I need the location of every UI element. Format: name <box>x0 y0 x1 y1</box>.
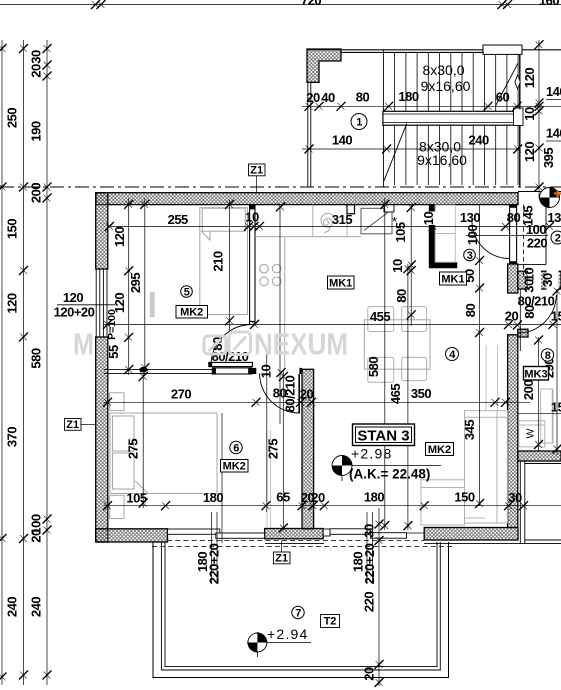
stair dim row 2 <box>302 148 520 150</box>
wall stem between room6 and hall <box>302 369 314 529</box>
dim texts chain B <box>5 108 20 617</box>
room number 4 <box>446 348 459 362</box>
room6 bed <box>110 413 217 494</box>
Z1 box left <box>65 419 97 432</box>
svg-text:8x30,0: 8x30,0 <box>422 62 464 78</box>
STAN 3 title block <box>353 424 415 446</box>
svg-text:30: 30 <box>540 273 555 287</box>
svg-text:9x16,60: 9x16,60 <box>417 152 467 168</box>
stair dim row 1 <box>302 105 561 107</box>
svg-text:10: 10 <box>421 212 436 226</box>
dining table <box>364 320 430 369</box>
svg-text:140: 140 <box>332 133 352 148</box>
door arc room5 <box>211 324 252 364</box>
svg-text:(A.K.= 22.48): (A.K.= 22.48) <box>349 467 430 482</box>
svg-text:20: 20 <box>311 490 325 505</box>
ticks chain A <box>0 44 7 682</box>
svg-text:250: 250 <box>5 108 20 128</box>
wall bottom T-pier <box>265 529 324 539</box>
svg-text:1: 1 <box>356 117 362 129</box>
entry door arc <box>472 221 510 259</box>
stair risers upper flight <box>395 52 518 111</box>
dim chain x266.8 <box>266 352 268 512</box>
kitchen counter dividers <box>313 205 347 237</box>
svg-text:Z1: Z1 <box>250 165 263 177</box>
room number 8 <box>541 349 553 362</box>
svg-text:MK2: MK2 <box>223 461 246 473</box>
terrace outline outer <box>153 542 449 678</box>
svg-text:60: 60 <box>496 90 510 105</box>
svg-text:275: 275 <box>126 439 141 459</box>
svg-text:120: 120 <box>112 227 127 247</box>
room number 5 <box>181 286 193 299</box>
terrace leader lines left <box>212 512 218 582</box>
partition room5-6 double line <box>104 369 252 373</box>
svg-text:140: 140 <box>546 126 561 141</box>
svg-text:8: 8 <box>545 350 551 362</box>
diamond marker on stair wall <box>515 75 520 89</box>
svg-text:30: 30 <box>522 279 537 293</box>
dimension chain line A left <box>1 40 3 685</box>
svg-text:220+20: 220+20 <box>362 543 377 584</box>
svg-text:80: 80 <box>394 289 409 303</box>
svg-text:MK1: MK1 <box>329 278 352 290</box>
dining chairs <box>368 307 427 383</box>
svg-text:Z1: Z1 <box>66 419 79 431</box>
svg-text:315: 315 <box>332 212 352 227</box>
dim line y402 <box>104 401 530 403</box>
wall right living room <box>508 335 518 528</box>
dim texts chain right <box>522 68 537 162</box>
stair mid divider <box>382 50 384 187</box>
ticks chain right <box>535 40 544 191</box>
svg-text:220: 220 <box>362 592 377 612</box>
dim line bottom y505.7 <box>104 505 561 507</box>
svg-text:NEXUM: NEXUM <box>254 327 348 362</box>
stair L-pier hatched <box>307 49 341 82</box>
svg-text:395: 395 <box>541 148 556 168</box>
svg-text:W: W <box>525 428 537 438</box>
svg-text:+2.94: +2.94 <box>267 626 308 642</box>
stair break diagonal lower <box>384 123 407 180</box>
stair right wall line <box>519 50 521 187</box>
svg-text:720: 720 <box>301 0 321 8</box>
svg-text:T2: T2 <box>324 616 337 628</box>
window room5 left wall frame <box>96 269 107 337</box>
entry door jamb lines <box>510 205 517 265</box>
axis dash-dot line <box>0 186 561 188</box>
wall left lower <box>96 337 108 542</box>
wall left upper <box>96 193 108 269</box>
sliding door living panels <box>330 529 407 538</box>
partition room5-kitchen double line <box>250 205 255 324</box>
svg-text:20: 20 <box>306 90 320 105</box>
svg-text:2: 2 <box>555 233 561 245</box>
ticks chain B <box>19 44 28 680</box>
dim line room5 top y226 <box>107 225 561 227</box>
label MK3 room8 <box>524 367 549 381</box>
partition room5-6 blocking bar <box>212 368 252 374</box>
svg-text:15: 15 <box>551 400 561 415</box>
svg-text:80/210: 80/210 <box>518 294 555 309</box>
svg-text:120: 120 <box>522 142 537 162</box>
wall corridor-room8 <box>518 271 561 289</box>
closet L hall <box>432 205 457 265</box>
svg-text:180: 180 <box>364 490 384 505</box>
radiator room5 <box>150 292 155 317</box>
thin line in living slider gap <box>407 532 425 534</box>
svg-text:200: 200 <box>29 183 44 203</box>
svg-text:580: 580 <box>29 348 44 368</box>
svg-text:580: 580 <box>366 357 381 377</box>
Z1 box bottom <box>274 541 291 565</box>
threshold oval room5-6 <box>139 367 147 372</box>
room6 nightstand top <box>110 393 124 411</box>
svg-text:160: 160 <box>539 0 559 8</box>
svg-text:345: 345 <box>462 420 477 440</box>
label T2 terrace <box>321 615 340 628</box>
label MK2 living <box>426 443 454 457</box>
svg-text:105: 105 <box>126 491 146 506</box>
small chain door room6 <box>276 202 286 424</box>
svg-text:MK2: MK2 <box>428 444 451 456</box>
svg-text:240: 240 <box>468 133 488 148</box>
watermark logo <box>204 332 251 355</box>
shelf room8 right <box>541 389 553 443</box>
Z1 box top <box>249 164 266 193</box>
svg-text:140: 140 <box>546 84 561 99</box>
ticks top dimension line <box>91 0 512 9</box>
balcony room8 outline <box>520 461 561 544</box>
white rect at bar right end <box>514 108 524 126</box>
svg-text:220: 220 <box>527 236 547 251</box>
level symbol living <box>332 455 441 481</box>
svg-text:190: 190 <box>29 121 44 141</box>
wall room8 bottom <box>518 451 561 461</box>
closet inner outline <box>435 205 455 262</box>
stair risers lower flight <box>395 125 518 185</box>
svg-text:270: 270 <box>171 387 191 402</box>
kitchen cooktop burners <box>260 264 281 285</box>
svg-text:STAN 3: STAN 3 <box>357 428 409 445</box>
svg-text:5: 5 <box>184 287 190 299</box>
svg-text:210: 210 <box>211 251 226 271</box>
window fraction 120/120+20 <box>54 290 115 320</box>
svg-text:20: 20 <box>29 529 44 543</box>
dim line living y324.4 <box>104 323 561 325</box>
kitchen hood cabinet with diagonal <box>361 208 392 234</box>
wall bottom right segment <box>424 528 518 541</box>
svg-text:+2.98: +2.98 <box>351 446 392 462</box>
dim chain kitchen x411 <box>410 205 412 327</box>
svg-text:350: 350 <box>411 386 431 401</box>
svg-text:20: 20 <box>300 387 314 402</box>
dimension chain line C left <box>46 40 48 685</box>
svg-text:20: 20 <box>29 64 44 78</box>
door jamb room6 right <box>299 368 302 374</box>
orange plus mark <box>554 190 561 197</box>
fraction 100/220 <box>466 222 548 251</box>
svg-text:MK3: MK3 <box>524 369 547 381</box>
dim chain room6 x143.2 <box>142 370 144 508</box>
dim chain bed x229.5 <box>229 200 231 330</box>
svg-text:MK2: MK2 <box>180 307 203 319</box>
terrace leader lines right <box>367 512 373 582</box>
sliding door room6 jambs and panels <box>168 529 265 538</box>
room6 nightstand bottom <box>110 495 124 518</box>
svg-text:30: 30 <box>362 524 377 538</box>
svg-text:9x16,60: 9x16,60 <box>421 78 471 94</box>
wardrobe face lines room6 <box>267 430 271 528</box>
svg-text:240: 240 <box>29 597 44 617</box>
svg-text:180: 180 <box>398 89 418 104</box>
label MK1 hall <box>440 272 467 286</box>
dim chain living x407.9 <box>407 264 409 530</box>
svg-text:105: 105 <box>393 222 408 242</box>
sliding door living jamb <box>323 529 330 536</box>
level symbol top right <box>540 188 560 208</box>
room number 2 <box>551 231 561 245</box>
sill line under right wall segment <box>424 543 520 545</box>
svg-text:130: 130 <box>547 210 561 225</box>
dim line room8 y416.4 <box>518 413 561 415</box>
dashed canopy line above terrace <box>152 546 452 548</box>
svg-text:20: 20 <box>505 309 519 324</box>
corridor dashed overhang line <box>523 205 525 278</box>
dimension line top <box>0 4 561 6</box>
dim chain room8 x557 <box>556 289 558 455</box>
stair left boundary double line <box>308 82 311 187</box>
entry door jamb caps <box>510 205 517 265</box>
svg-text:200: 200 <box>521 380 536 400</box>
wall stub room8 left <box>518 329 528 337</box>
door arc room6 <box>260 373 299 413</box>
kitchen sink spiral <box>321 213 335 232</box>
svg-text:30: 30 <box>29 50 44 64</box>
stair break diagonal upper <box>496 63 518 106</box>
stair landing handrail bar <box>383 111 519 125</box>
svg-text:455: 455 <box>370 309 390 324</box>
svg-text:40: 40 <box>321 90 335 105</box>
svg-text:130: 130 <box>460 210 480 225</box>
svg-text:150: 150 <box>5 219 20 239</box>
svg-text:10: 10 <box>522 107 537 121</box>
sofa living bottom <box>421 411 508 525</box>
furniture room5 bed <box>200 208 248 315</box>
svg-text:255: 255 <box>168 212 188 227</box>
ticks chain C <box>43 44 52 680</box>
svg-text:120+20: 120+20 <box>54 305 95 320</box>
svg-text:465: 465 <box>388 384 403 404</box>
terrace outline inner <box>165 542 437 667</box>
svg-text:80: 80 <box>507 210 521 225</box>
svg-text:65: 65 <box>276 490 290 505</box>
svg-text:100: 100 <box>465 225 480 245</box>
dim chain living x384.8 <box>384 198 386 530</box>
dim texts chain C <box>29 50 44 617</box>
svg-text:20: 20 <box>362 667 377 681</box>
svg-text:180: 180 <box>203 490 223 505</box>
vent rect on top wall <box>384 205 394 212</box>
wall bottom left segment <box>96 529 168 542</box>
svg-text:55: 55 <box>106 345 121 359</box>
dimension chain line B left <box>23 40 25 685</box>
kitchen counter lines <box>255 237 361 368</box>
staircase top boundary lines <box>307 50 561 53</box>
dim chain terrace x379 <box>378 508 380 686</box>
svg-text:15: 15 <box>551 309 561 324</box>
dimension chain line right x539 <box>538 40 540 198</box>
label MK2 room5 <box>176 306 208 319</box>
svg-text:120: 120 <box>522 68 537 88</box>
svg-text:Z1: Z1 <box>275 553 288 565</box>
svg-text:7: 7 <box>295 608 301 620</box>
room number 7 <box>292 606 304 619</box>
svg-text:275: 275 <box>266 439 281 459</box>
svg-text:M: M <box>73 327 94 362</box>
rot dims wall thickness right <box>528 267 541 293</box>
vent box kitchen wall <box>347 205 355 214</box>
door arc room8 <box>518 295 557 333</box>
svg-text:120: 120 <box>5 293 20 313</box>
svg-text:80/210: 80/210 <box>283 375 298 412</box>
terrace outline middle <box>161 542 440 670</box>
wall top exterior <box>96 193 518 205</box>
door jamb room6 left <box>252 368 256 374</box>
label MK1 kitchen <box>328 276 355 290</box>
svg-text:295: 295 <box>128 273 143 293</box>
dim chain room5 x128.7 <box>128 198 130 375</box>
svg-text:370: 370 <box>5 427 20 447</box>
svg-text:240: 240 <box>5 597 20 617</box>
sill line under T-pier <box>265 543 324 545</box>
room number 3 <box>464 249 476 262</box>
dim chain room5 x144.8 <box>144 198 146 375</box>
svg-text:10: 10 <box>259 365 274 379</box>
svg-text:MK1: MK1 <box>441 274 464 286</box>
corridor top edge line <box>518 191 561 193</box>
lintel rect top right <box>483 45 522 54</box>
svg-text:10: 10 <box>245 210 259 225</box>
svg-text:120: 120 <box>63 290 83 305</box>
svg-text:10: 10 <box>390 259 405 273</box>
dim chain room6 x283.3 <box>282 370 284 530</box>
washing machine room8 <box>519 421 545 447</box>
armchair lines near right wall <box>486 345 498 410</box>
dim text 10 closet <box>428 212 439 226</box>
room number 6 <box>230 441 242 454</box>
dim chain hall x479.6 <box>479 205 481 506</box>
svg-text:3: 3 <box>467 250 473 262</box>
svg-text:150: 150 <box>454 490 474 505</box>
slider junction leader line room6 <box>221 413 223 543</box>
svg-text:80: 80 <box>356 90 370 105</box>
svg-text:80: 80 <box>463 304 478 318</box>
corridor outer rail line <box>545 192 547 265</box>
svg-text:10: 10 <box>522 268 537 282</box>
svg-text:220+20: 220+20 <box>207 543 222 584</box>
svg-text:6: 6 <box>233 443 239 455</box>
dim chain room8 x538.5 <box>538 337 540 451</box>
right edge dim stubs <box>546 100 561 142</box>
corridor bottom edge line <box>517 263 546 265</box>
level symbol terrace <box>247 632 311 657</box>
dashed line under bottom wall <box>167 539 424 541</box>
wall stub hall-living <box>508 264 518 293</box>
room number 1 <box>351 114 367 130</box>
label MK2 room6 <box>221 460 249 473</box>
